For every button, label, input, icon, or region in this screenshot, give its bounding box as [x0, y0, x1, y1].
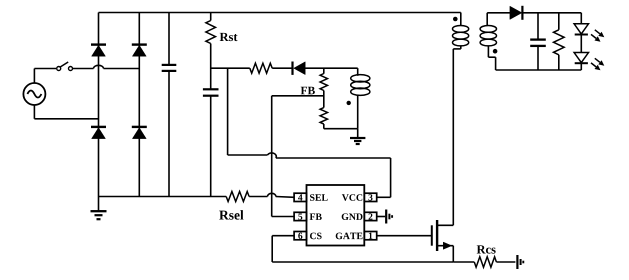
wire — [323, 68, 325, 74]
AC source V1 — [23, 83, 45, 105]
LED LED2 — [574, 53, 588, 63]
wire — [324, 128, 358, 130]
pin 3 — [364, 193, 376, 201]
resistor R3 — [320, 108, 327, 124]
ground — [98, 197, 100, 212]
label Rsel — [219, 210, 243, 219]
wire — [99, 12, 461, 14]
wire — [210, 13, 212, 21]
wire — [210, 44, 212, 89]
resistor R4 — [558, 13, 560, 30]
label CS — [310, 233, 322, 240]
capacitor C2 — [203, 88, 219, 90]
resistor Rst — [206, 21, 216, 44]
diode D4 — [132, 126, 147, 128]
wire — [168, 13, 170, 65]
diode D5 — [291, 62, 293, 75]
wire — [272, 216, 294, 218]
label VCC — [342, 194, 362, 201]
wire — [99, 196, 227, 198]
pin 4 — [294, 193, 306, 201]
switch S1 — [57, 67, 61, 71]
transformer T1 primary — [460, 13, 462, 27]
wire — [323, 91, 325, 108]
wire — [377, 196, 391, 198]
transformer T1 secondary — [486, 13, 488, 26]
wire — [272, 67, 292, 69]
pin 6 — [294, 232, 306, 240]
wire — [73, 68, 94, 70]
transistor Q1 — [431, 225, 433, 245]
wire — [271, 96, 273, 217]
polarity dot T1 primary — [453, 17, 458, 22]
ground — [357, 129, 359, 137]
label Rst — [220, 33, 238, 41]
wire — [377, 235, 432, 237]
label FB — [310, 213, 322, 219]
wire — [34, 118, 98, 120]
diode D6 — [510, 6, 522, 19]
ground — [385, 210, 387, 224]
wire — [390, 158, 392, 197]
pin 1 — [364, 232, 376, 240]
resistor R1 — [250, 63, 272, 73]
label GATE — [336, 233, 363, 240]
diode D2 — [132, 43, 147, 45]
wire — [271, 236, 273, 262]
wire — [227, 68, 229, 155]
wire — [33, 105, 35, 119]
label FB — [301, 87, 315, 95]
wire — [228, 154, 268, 156]
wire — [210, 96, 212, 196]
wire — [98, 13, 100, 197]
wire — [211, 67, 250, 69]
polarity dot L1 — [347, 101, 351, 105]
wire — [305, 67, 358, 69]
wire — [272, 261, 453, 263]
label GND — [342, 213, 363, 220]
wire — [452, 49, 454, 225]
op-amp U1 controller box — [307, 185, 365, 246]
label SEL — [310, 194, 328, 201]
wire — [496, 69, 582, 71]
wire — [168, 72, 170, 197]
inductor L1 aux winding — [357, 68, 359, 76]
node FB wire — [272, 95, 324, 97]
LED1 arrows — [595, 30, 600, 34]
wire — [34, 68, 56, 70]
wire — [323, 124, 325, 129]
resistor Rcs — [453, 261, 474, 263]
wire — [249, 196, 267, 198]
pin 2 — [364, 212, 376, 220]
capacitor C1 — [162, 64, 177, 66]
capacitor C3 — [537, 13, 539, 39]
wire — [487, 12, 510, 14]
wire — [522, 12, 581, 14]
resistor Rsel — [226, 192, 249, 202]
wire — [272, 235, 294, 237]
wire — [377, 216, 386, 218]
pin 5 — [294, 212, 306, 220]
resistor R2 — [320, 74, 327, 91]
polarity dot T1 secondary — [493, 49, 498, 54]
diode D1 — [91, 43, 106, 45]
ground — [516, 255, 518, 269]
wire — [33, 69, 35, 84]
LED2 arrows — [595, 58, 600, 62]
wire — [138, 13, 140, 197]
LED LED1 — [580, 13, 582, 24]
diode D3 — [91, 126, 106, 128]
label Rcs — [477, 245, 496, 253]
